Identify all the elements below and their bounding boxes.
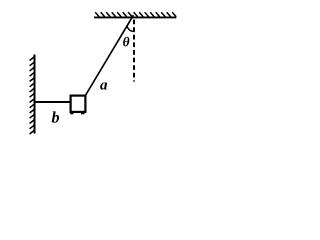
angle arc bbox=[127, 26, 134, 32]
ceiling line bbox=[94, 16, 176, 18]
label θ bbox=[123, 37, 129, 47]
label a bbox=[100, 82, 107, 89]
ceiling hatching bbox=[95, 12, 176, 17]
dashed vertical reference line bbox=[133, 20, 135, 82]
wall line bbox=[34, 55, 36, 134]
wall hatching bbox=[30, 57, 35, 135]
string b (wall to block) bbox=[36, 101, 71, 103]
block foot left bbox=[70, 113, 73, 115]
block foot right bbox=[81, 113, 84, 115]
label b bbox=[52, 111, 59, 122]
block (square) bbox=[71, 96, 86, 112]
string a (block to ceiling) bbox=[86, 15, 134, 95]
